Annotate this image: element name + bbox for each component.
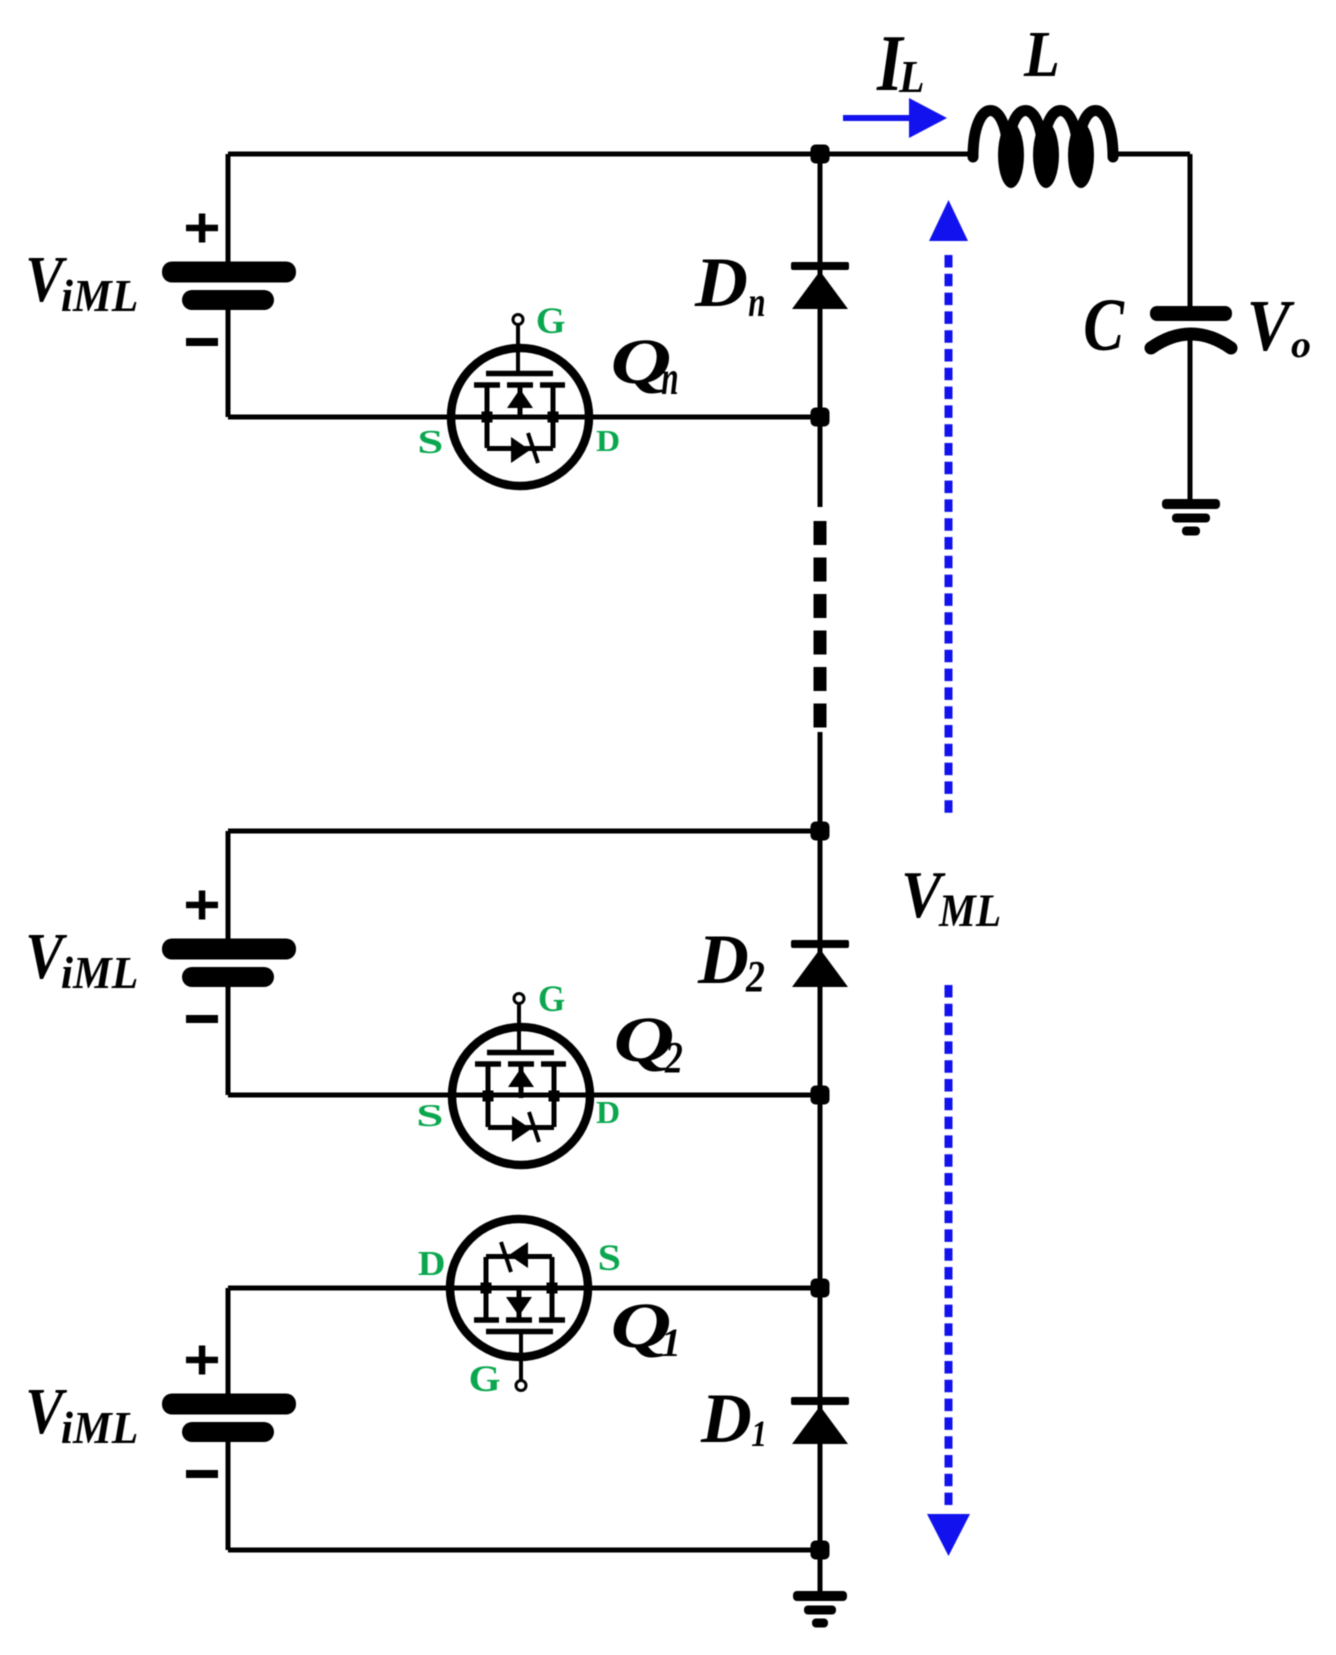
svg-text:D: D bbox=[697, 921, 749, 999]
svg-text:1: 1 bbox=[661, 1320, 681, 1365]
svg-text:V: V bbox=[1247, 285, 1295, 366]
svg-text:iML: iML bbox=[61, 947, 138, 998]
svg-text:2: 2 bbox=[745, 951, 765, 1001]
svg-text:iML: iML bbox=[61, 270, 138, 321]
svg-text:C: C bbox=[1083, 283, 1125, 366]
svg-text:D: D bbox=[694, 243, 748, 322]
svg-text:L: L bbox=[898, 52, 924, 102]
svg-text:n: n bbox=[661, 351, 678, 405]
svg-text:D: D bbox=[700, 1380, 752, 1458]
svg-text:G: G bbox=[536, 302, 566, 342]
svg-text:n: n bbox=[748, 280, 765, 327]
svg-text:2: 2 bbox=[664, 1032, 683, 1082]
svg-text:G: G bbox=[538, 978, 565, 1019]
svg-text:D: D bbox=[596, 1096, 620, 1131]
svg-text:1: 1 bbox=[751, 1415, 767, 1455]
svg-text:G: G bbox=[469, 1359, 501, 1399]
svg-text:D: D bbox=[596, 424, 620, 457]
svg-text:S: S bbox=[416, 1097, 443, 1133]
svg-text:S: S bbox=[598, 1238, 621, 1279]
svg-text:D: D bbox=[418, 1243, 446, 1282]
svg-text:L: L bbox=[1023, 17, 1060, 91]
svg-text:ML: ML bbox=[938, 885, 1001, 937]
svg-text:o: o bbox=[1291, 324, 1311, 366]
svg-text:iML: iML bbox=[61, 1402, 138, 1453]
svg-text:S: S bbox=[417, 423, 443, 460]
